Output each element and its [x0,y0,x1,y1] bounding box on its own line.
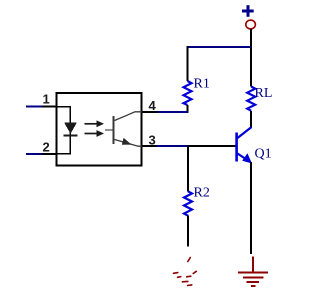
svg-text:3: 3 [149,132,156,147]
phototransistor emitter line [115,140,143,147]
phototransistor base stub [105,129,113,131]
resistor R2 [184,191,192,215]
svg-text:R1: R1 [194,77,210,92]
svg-text:Q1: Q1 [255,147,272,162]
svg-text:RL: RL [255,86,273,101]
phototransistor base bar [113,116,115,144]
wire R1 bottom lead [187,105,189,112]
supply terminal circle [246,20,256,29]
svg-text:R2: R2 [194,185,210,200]
resistor R1 [184,81,192,105]
optocoupler U1 box [57,93,142,166]
LED D1 anode triangle [64,122,77,134]
wire pin 1 [26,106,42,108]
phototransistor collector line [115,112,143,121]
Q1 emitter diagonal [238,154,249,161]
wire Q1 emitter down [250,162,252,254]
wire top rail [188,46,252,48]
Q1 emitter arrowhead [242,153,252,163]
wire node to Q1 base [189,145,236,147]
LED D1 cathode bar [64,135,78,137]
phototransistor emitter arrowhead [122,138,132,145]
wire base node to R2 [187,146,189,191]
wire LED branch inside box [57,107,71,154]
light arrow 1 [85,120,105,127]
Q1 collector diagonal [238,127,252,138]
wire top rail to R1 [187,46,189,81]
wire RL bottom lead [250,111,252,128]
svg-text:2: 2 [43,140,50,155]
Q1 base bar [235,133,238,162]
wire R2 bottom lead [187,216,189,247]
light arrow 2 [85,130,105,137]
chassis ground left (sketchy) [174,258,197,286]
earth ground right [238,257,268,287]
supply + symbol [242,5,254,17]
transistor Q1 [235,127,252,164]
wire pin 3 to base node [142,145,157,147]
svg-text:1: 1 [43,91,50,106]
wire pin 2 [26,153,42,155]
wire pin 4 to R1 [142,111,158,113]
resistor RL [247,87,255,111]
wire supply circle to RL [250,29,252,87]
